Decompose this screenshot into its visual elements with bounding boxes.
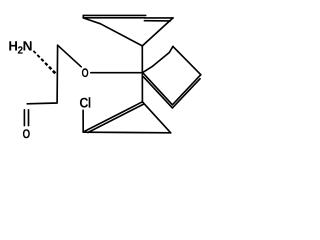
- wire top ring edge B double line: [144, 20, 170, 22]
- wire Cl stub: [82, 110, 84, 132]
- wire vertical trunk: [141, 46, 143, 102]
- wire top ring left diagonal: [83, 18, 142, 46]
- wire top ring edge A main: [83, 17, 145, 19]
- wire bottom ring edge T-R: [142, 102, 170, 133]
- label N of H2N amine: [24, 41, 32, 50]
- wire diamond upper-right edge: [173, 46, 201, 74]
- label subscript 2 of H2N: [18, 46, 23, 53]
- wire top ring right diagonal: [142, 18, 173, 46]
- wire apex to ether O: [58, 45, 82, 67]
- label aldehyde O: [23, 129, 30, 138]
- wire diamond lower-right edge main: [172, 75, 200, 105]
- wire C=O double bond line 1: [23, 110, 25, 126]
- wire bottom ring edge L-T double line: [88, 104, 144, 132]
- label ether O: [82, 68, 88, 77]
- wire bottom ring bottom edge: [83, 131, 171, 134]
- wire diamond upper-left edge: [143, 46, 173, 72]
- wire top ring edge B main: [145, 17, 173, 19]
- wire top ring edge A double line: [83, 14, 145, 16]
- wire diamond lower-left edge double line: [143, 77, 172, 108]
- wire bottom ring edge L-T main: [83, 102, 142, 132]
- wire C=O double bond line 2: [28, 110, 30, 126]
- wire hashed wedge bond N to stereocenter (6 dashes): [33, 51, 55, 73]
- wire top ring left vertex tick: [82, 15, 84, 17]
- wire ether O to C1: [91, 72, 143, 74]
- label l of Cl chlorine: [89, 97, 91, 107]
- label H of H2N amine: [9, 41, 17, 50]
- label C of Cl chlorine: [80, 98, 88, 108]
- wire diamond lower-left edge main: [143, 73, 173, 105]
- wire vertical C chain: [27, 45, 57, 104]
- wire diamond lower-right edge double line: [172, 79, 200, 108]
